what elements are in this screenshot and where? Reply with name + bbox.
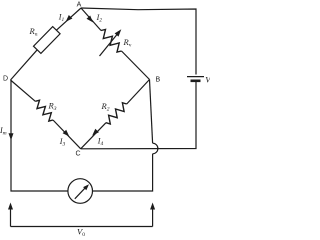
- svg-text:D: D: [3, 76, 8, 83]
- resistor R2: [101, 101, 127, 124]
- wire galvanometer to D: [11, 80, 68, 191]
- wire A to Rv: [81, 8, 101, 31]
- wire R2 to C: [81, 123, 106, 149]
- svg-text:C: C: [75, 151, 80, 158]
- resistor R3: [35, 100, 56, 121]
- battery Vi: [187, 75, 212, 87]
- wire Rv to B: [122, 51, 150, 80]
- current arrow I3: [59, 130, 70, 148]
- galvanometer: [68, 179, 93, 204]
- resistor Ru: [29, 26, 61, 54]
- wire B down to crossover: [150, 80, 153, 144]
- current arrow I4: [92, 129, 103, 147]
- voltage dimension V0: [8, 203, 155, 227]
- wire A to Ru: [56, 8, 81, 30]
- wire battery negative to C: [81, 81, 196, 149]
- wire B to R2: [127, 80, 150, 105]
- svg-text:B: B: [156, 77, 161, 84]
- variable resistor Rv: [100, 29, 132, 56]
- current arrow I1: [58, 13, 73, 24]
- svg-text:Vi: Vi: [205, 75, 210, 87]
- svg-text:A: A: [77, 2, 82, 9]
- wire Ru to D: [11, 50, 38, 80]
- wire R3 to C: [53, 120, 81, 149]
- current arrow I2: [87, 13, 103, 24]
- wire A to battery positive: [81, 8, 196, 75]
- wire D to R3: [11, 80, 36, 101]
- wire crossover hop: [153, 143, 158, 154]
- wire crossover to bottom corner to galvanometer: [93, 154, 153, 191]
- current arrow Im: [0, 126, 14, 140]
